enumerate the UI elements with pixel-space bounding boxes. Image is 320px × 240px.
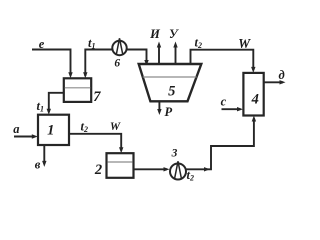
svg-text:д: д bbox=[278, 68, 284, 82]
svg-text:5: 5 bbox=[168, 83, 175, 99]
svg-text:W: W bbox=[238, 36, 251, 51]
svg-text:t2: t2 bbox=[81, 120, 88, 135]
svg-text:а: а bbox=[13, 122, 19, 136]
svg-text:е: е bbox=[39, 37, 45, 51]
svg-text:У: У bbox=[169, 27, 179, 41]
svg-text:в: в bbox=[35, 158, 41, 172]
svg-text:3: 3 bbox=[171, 147, 178, 159]
svg-text:t2: t2 bbox=[195, 36, 202, 51]
svg-text:7: 7 bbox=[93, 89, 101, 105]
svg-text:t1: t1 bbox=[88, 36, 95, 51]
svg-text:Р: Р bbox=[164, 105, 172, 119]
svg-text:1: 1 bbox=[47, 123, 54, 139]
svg-text:t1: t1 bbox=[37, 99, 44, 114]
svg-text:W: W bbox=[110, 121, 121, 133]
svg-text:6: 6 bbox=[114, 58, 120, 70]
svg-text:2: 2 bbox=[94, 162, 102, 178]
svg-text:И: И bbox=[149, 27, 161, 41]
svg-text:4: 4 bbox=[251, 91, 259, 107]
svg-text:с: с bbox=[221, 94, 227, 108]
